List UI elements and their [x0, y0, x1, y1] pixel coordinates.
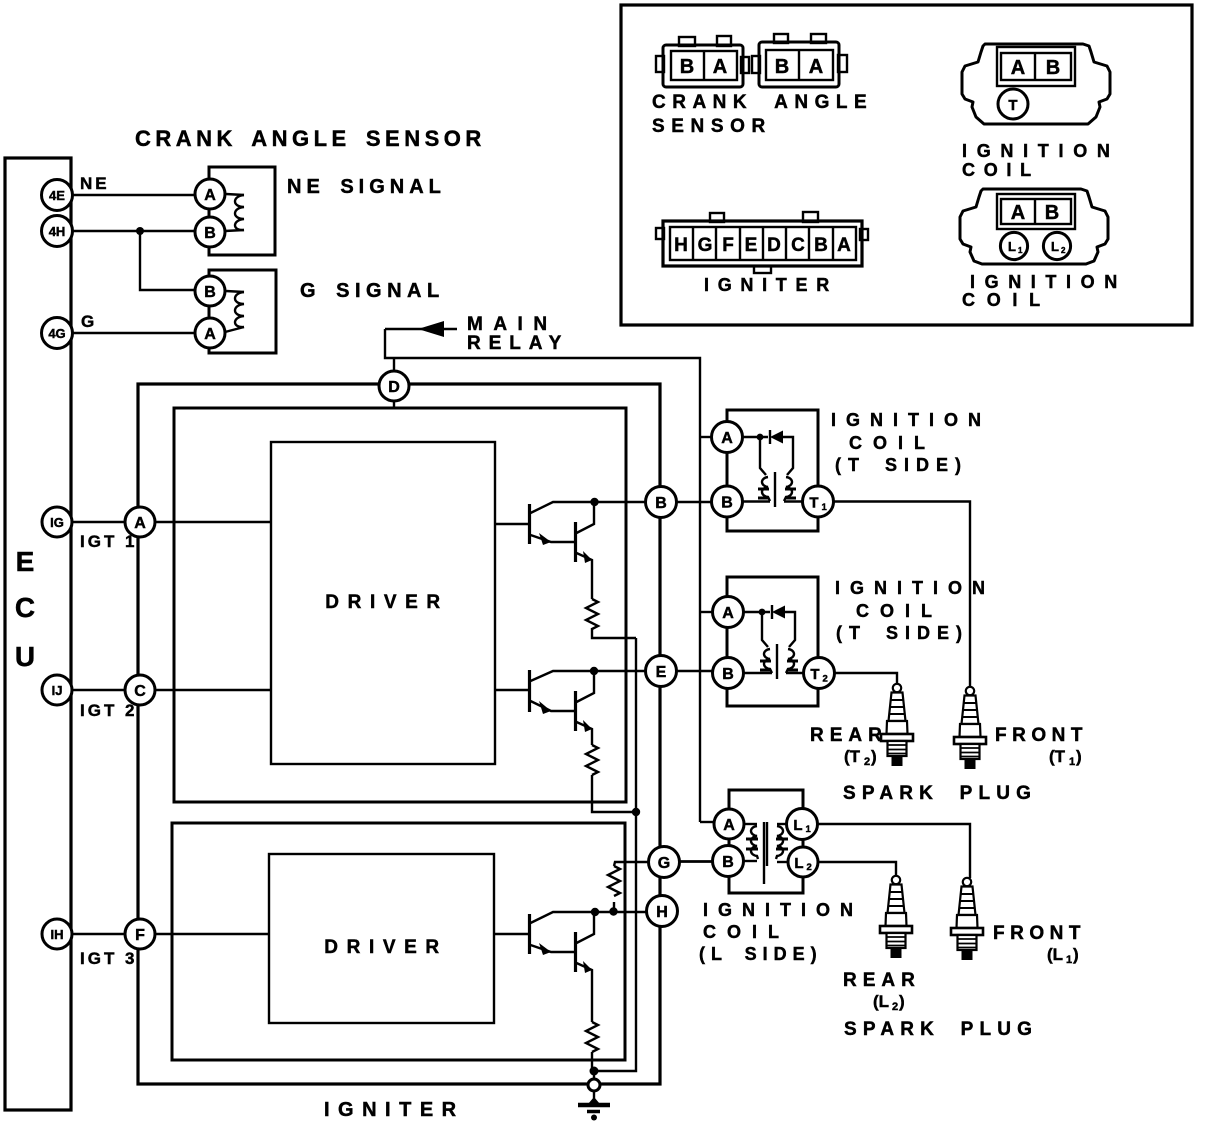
svg-text:SENSOR: SENSOR [652, 116, 772, 137]
svg-text:G: G [658, 855, 670, 872]
svg-text:A: A [809, 56, 823, 78]
svg-text:B: B [775, 56, 789, 78]
svg-text:1: 1 [1066, 954, 1072, 966]
svg-text:E: E [656, 664, 667, 681]
svg-text:D: D [767, 235, 781, 256]
svg-text:A: A [837, 235, 851, 256]
svg-text:A: A [1011, 202, 1025, 224]
svg-text:L: L [793, 817, 802, 834]
svg-text:L: L [1051, 239, 1059, 254]
svg-text:B: B [814, 235, 828, 256]
svg-text:2: 2 [823, 674, 828, 685]
svg-text:COIL: COIL [962, 290, 1052, 310]
svg-text:1: 1 [822, 502, 828, 513]
svg-text:NE: NE [80, 174, 110, 193]
svg-text:IGT 3: IGT 3 [80, 949, 138, 968]
svg-text:): ) [871, 747, 877, 766]
svg-text:A: A [713, 56, 727, 78]
svg-text:IGNITER: IGNITER [704, 275, 838, 295]
svg-text:A: A [204, 326, 216, 343]
svg-text:E: E [16, 546, 35, 577]
svg-text:RELAY: RELAY [467, 333, 569, 354]
svg-text:1: 1 [1069, 756, 1075, 768]
svg-text:2: 2 [1061, 246, 1066, 255]
svg-text:COIL: COIL [849, 433, 936, 453]
svg-text:SPARK PLUG: SPARK PLUG [843, 783, 1037, 804]
svg-text:L: L [794, 855, 803, 872]
svg-text:A: A [723, 817, 735, 834]
svg-text:DRIVER: DRIVER [324, 937, 447, 958]
svg-text:B: B [204, 284, 216, 301]
svg-text:B: B [1046, 57, 1060, 79]
svg-text:(L SIDE): (L SIDE) [699, 944, 823, 964]
svg-text:SPARK PLUG: SPARK PLUG [844, 1019, 1038, 1040]
svg-text:IGT 1: IGT 1 [80, 532, 138, 551]
svg-text:(T SIDE): (T SIDE) [835, 455, 968, 475]
svg-text:T: T [1008, 97, 1017, 114]
svg-text:(T: (T [1049, 747, 1066, 766]
svg-text:IGNITION: IGNITION [831, 410, 991, 430]
svg-text:B: B [680, 56, 694, 78]
svg-text:B: B [655, 495, 667, 512]
svg-text:C: C [134, 683, 146, 700]
svg-text:IG: IG [50, 515, 64, 530]
svg-text:NE SIGNAL: NE SIGNAL [287, 176, 446, 198]
svg-text:2: 2 [864, 756, 870, 768]
svg-text:E: E [745, 235, 758, 256]
svg-text:F: F [135, 927, 145, 944]
svg-text:G: G [698, 235, 713, 256]
svg-text:A: A [722, 605, 734, 622]
svg-text:IJ: IJ [52, 683, 63, 698]
svg-text:C: C [791, 235, 805, 256]
svg-text:U: U [15, 641, 35, 672]
svg-text:A: A [721, 430, 733, 447]
svg-text:IGNITION: IGNITION [962, 141, 1120, 161]
svg-text:MAIN: MAIN [467, 314, 558, 335]
svg-text:L: L [1008, 239, 1016, 254]
svg-text:G SIGNAL: G SIGNAL [300, 280, 445, 302]
svg-text:4G: 4G [48, 326, 65, 341]
svg-text:(T: (T [844, 747, 861, 766]
svg-text:REAR: REAR [810, 725, 888, 746]
svg-text:H: H [656, 904, 668, 921]
svg-text:(L: (L [1047, 945, 1063, 964]
svg-text:IH: IH [51, 927, 64, 942]
svg-text:1: 1 [1018, 246, 1023, 255]
svg-text:IGNITION: IGNITION [970, 272, 1127, 292]
svg-text:REAR: REAR [843, 970, 921, 991]
svg-text:D: D [388, 379, 400, 396]
svg-text:): ) [899, 992, 905, 1011]
svg-text:C: C [15, 592, 35, 623]
svg-text:T: T [810, 666, 819, 683]
svg-text:T: T [809, 495, 818, 512]
svg-text:DRIVER: DRIVER [325, 592, 448, 613]
svg-text:FRONT: FRONT [993, 923, 1086, 944]
svg-text:COIL: COIL [703, 922, 790, 942]
svg-text:A: A [204, 187, 216, 204]
svg-text:B: B [1045, 202, 1059, 224]
svg-text:(T SIDE): (T SIDE) [836, 623, 969, 643]
svg-text:A: A [134, 515, 146, 532]
svg-text:1: 1 [806, 824, 812, 835]
svg-text:IGT 2: IGT 2 [80, 701, 138, 720]
svg-text:B: B [204, 225, 216, 242]
svg-text:G: G [81, 312, 94, 331]
svg-text:CRANK ANGLE: CRANK ANGLE [652, 92, 873, 113]
svg-text:IGNITION: IGNITION [703, 900, 863, 920]
svg-text:2: 2 [807, 862, 812, 873]
svg-text:B: B [722, 666, 734, 683]
svg-text:4E: 4E [49, 188, 65, 203]
svg-text:): ) [1073, 945, 1079, 964]
svg-text:F: F [722, 235, 734, 256]
svg-text:4H: 4H [49, 224, 66, 239]
svg-text:FRONT: FRONT [995, 725, 1088, 746]
svg-text:COIL: COIL [962, 160, 1040, 180]
svg-text:IGNITER: IGNITER [324, 1099, 465, 1121]
svg-text:COIL: COIL [856, 601, 943, 621]
svg-text:A: A [1011, 57, 1025, 79]
svg-text:B: B [722, 854, 734, 871]
svg-text:2: 2 [892, 1001, 898, 1013]
svg-text:CRANK ANGLE SENSOR: CRANK ANGLE SENSOR [135, 126, 486, 151]
svg-text:H: H [674, 235, 688, 256]
svg-text:(L: (L [873, 992, 889, 1011]
svg-text:B: B [721, 495, 733, 512]
svg-text:): ) [1076, 747, 1082, 766]
